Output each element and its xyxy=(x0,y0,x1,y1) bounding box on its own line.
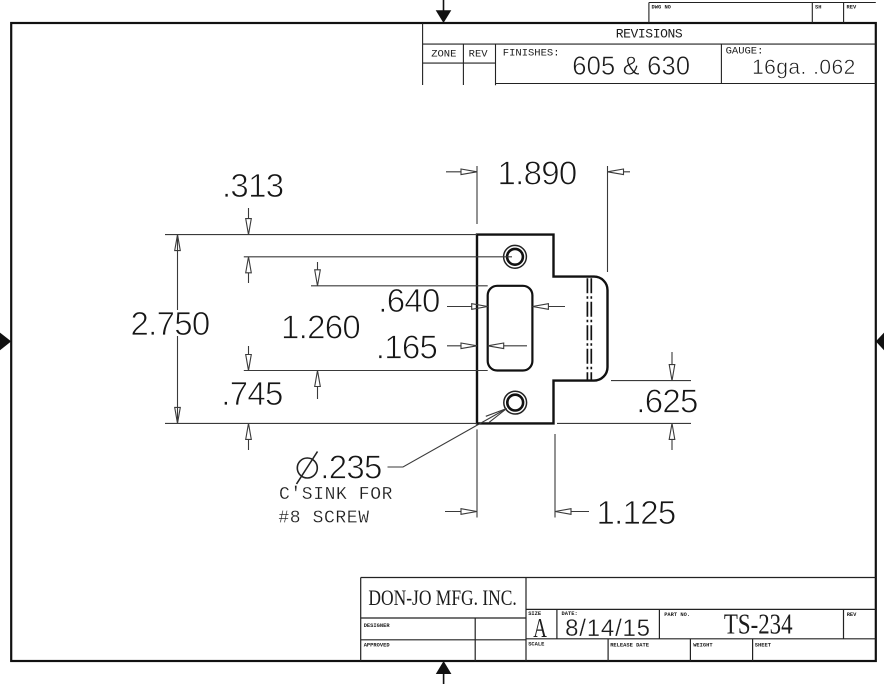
bend tangent line right dash-dot xyxy=(590,278,592,379)
svg-text:605 & 630: 605 & 630 xyxy=(572,53,690,81)
svg-text:1.260: 1.260 xyxy=(281,309,360,346)
extension line latch hole bottom xyxy=(244,370,488,372)
svg-text:DWG NO: DWG NO xyxy=(652,4,672,10)
svg-text:.640: .640 xyxy=(378,282,440,319)
dwg-no mini table top right xyxy=(649,3,876,24)
dimension 1.890 extension lines xyxy=(446,166,630,272)
svg-text:8/14/15: 8/14/15 xyxy=(565,615,651,642)
dimension 2.750 line xyxy=(175,235,181,424)
svg-text:REV: REV xyxy=(847,4,857,10)
svg-text:TS-234: TS-234 xyxy=(724,608,793,640)
title block lines xyxy=(361,578,876,662)
screw hole top outer xyxy=(504,245,527,268)
dimension .640 arrows xyxy=(447,304,565,310)
strike plate outline xyxy=(477,235,608,424)
svg-text:.235: .235 xyxy=(320,449,381,486)
latch hole rounded rect xyxy=(488,286,533,371)
svg-text:DON-JO MFG. INC.: DON-JO MFG. INC. xyxy=(368,586,516,610)
svg-text:C'SINK FOR: C'SINK FOR xyxy=(279,485,393,505)
svg-text:FINISHES:: FINISHES: xyxy=(503,47,560,59)
svg-text:APPROVED: APPROVED xyxy=(364,643,391,649)
extension line top hole center xyxy=(244,256,512,258)
center mark arrow right xyxy=(876,333,884,351)
svg-text:2.750: 2.750 xyxy=(130,305,209,342)
value A xyxy=(533,614,547,644)
svg-text:RELEASE DATE: RELEASE DATE xyxy=(610,642,650,648)
svg-text:.165: .165 xyxy=(376,329,437,366)
leader line to countersink hole xyxy=(388,409,507,468)
svg-text:SH: SH xyxy=(815,4,821,10)
diameter symbol xyxy=(297,452,318,485)
center mark arrow bottom xyxy=(436,661,452,684)
dimension .745 arrows xyxy=(246,346,252,450)
value TS-234 xyxy=(724,608,793,640)
svg-text:#8 SCREW: #8 SCREW xyxy=(278,509,369,529)
center mark arrow left xyxy=(0,333,11,351)
dimension 1.260 arrows xyxy=(315,262,321,399)
svg-text:SHEET: SHEET xyxy=(755,642,772,648)
svg-text:1.125: 1.125 xyxy=(596,494,675,531)
extension line plate top edge left xyxy=(165,234,477,236)
bend centerline left dash-dot xyxy=(586,278,588,379)
dimension .313 arrows xyxy=(246,208,252,283)
svg-text:PART NO.: PART NO. xyxy=(664,612,690,618)
svg-text:.625: .625 xyxy=(636,383,697,420)
svg-text:REV: REV xyxy=(847,612,857,618)
svg-text:.313: .313 xyxy=(222,167,283,204)
center mark arrow top xyxy=(436,0,452,23)
screw hole bottom outer xyxy=(504,391,527,414)
svg-text:DESIGNER: DESIGNER xyxy=(364,623,391,629)
company box DON-JO MFG. INC. xyxy=(368,586,516,610)
svg-text:A: A xyxy=(533,614,547,644)
screw hole bottom inner xyxy=(507,395,523,411)
dimension .625 extension lines xyxy=(557,352,691,450)
dimension 1.125 extension lines xyxy=(445,429,589,517)
extension line plate bottom edge left xyxy=(165,422,477,424)
svg-text:.745: .745 xyxy=(221,375,282,412)
svg-text:1.890: 1.890 xyxy=(497,155,576,192)
svg-text:WEIGHT: WEIGHT xyxy=(693,642,713,648)
revisions table xyxy=(423,23,876,85)
svg-text:16ga. .062: 16ga. .062 xyxy=(752,56,856,79)
dimension .165 arrows xyxy=(447,343,527,349)
svg-text:REV: REV xyxy=(469,48,489,60)
svg-text:REVISIONS: REVISIONS xyxy=(616,27,683,42)
svg-text:ZONE: ZONE xyxy=(431,48,456,60)
screw hole top inner xyxy=(507,249,523,265)
extension line latch hole top xyxy=(311,285,488,287)
svg-text:SCALE: SCALE xyxy=(528,642,545,648)
